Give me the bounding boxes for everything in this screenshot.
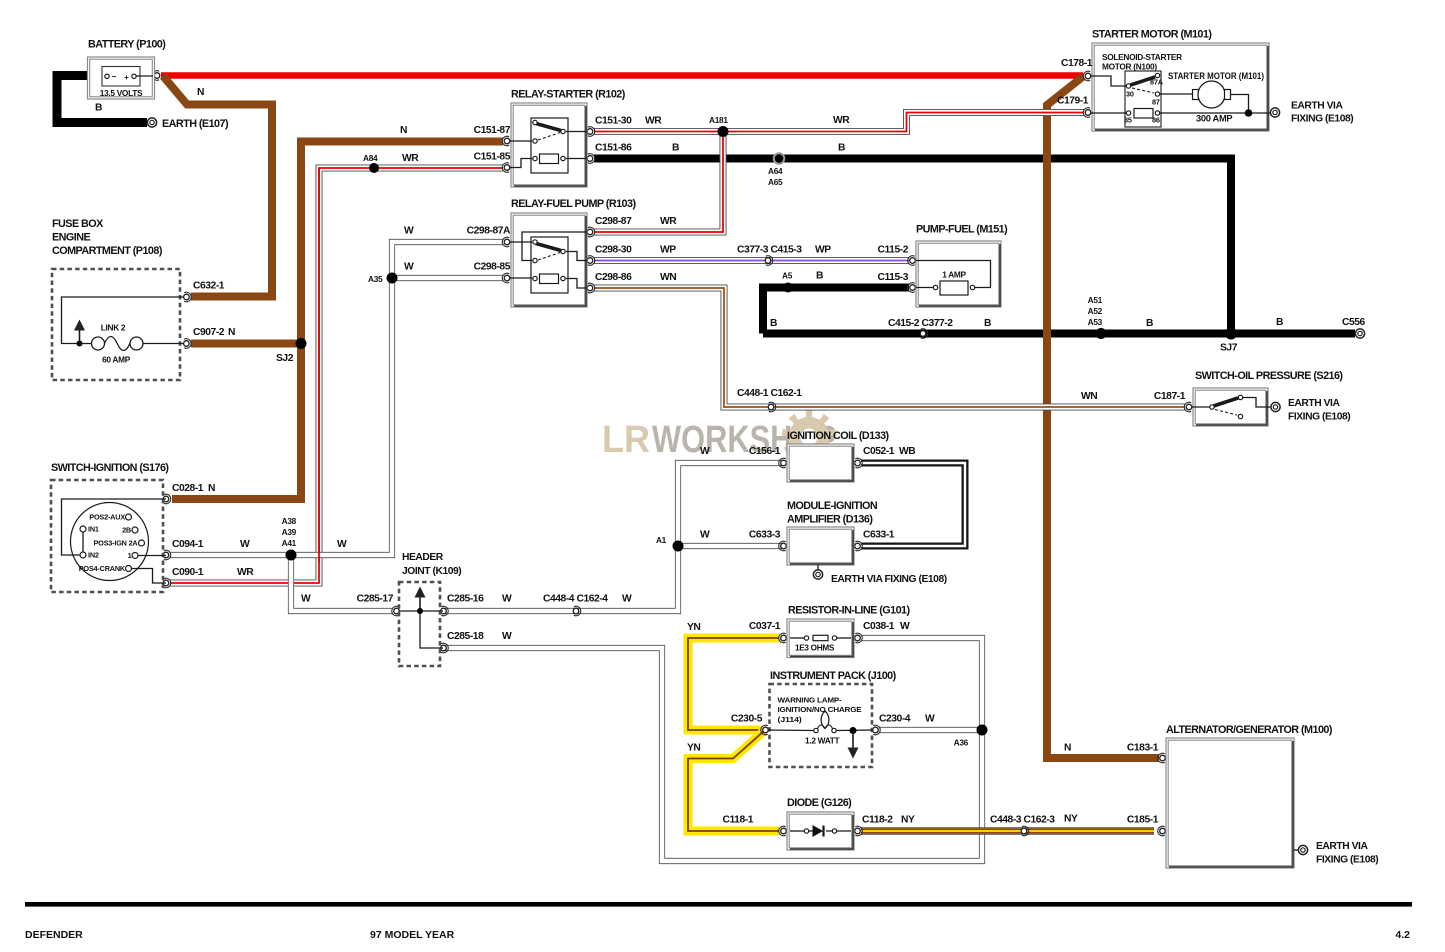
svg-text:WN: WN	[1081, 391, 1097, 402]
wire W header C285-18 via A36 to resistor C038-1 and instrument C230-4	[445, 638, 982, 861]
svg-text:C415-2 C377-2: C415-2 C377-2	[888, 318, 953, 329]
svg-text:JOINT (K109): JOINT (K109)	[402, 566, 461, 577]
svg-text:C298-30: C298-30	[595, 245, 632, 256]
svg-text:POS2-AUX: POS2-AUX	[89, 513, 125, 522]
node SJ7	[1225, 328, 1237, 340]
node A38 A39 A41	[286, 550, 297, 561]
battery P100	[88, 57, 155, 99]
svg-text:WR: WR	[660, 216, 677, 227]
svg-text:C285-17: C285-17	[357, 594, 394, 605]
connector C185-1	[1158, 826, 1166, 836]
connector C285-17	[392, 606, 400, 616]
svg-text:LR: LR	[602, 419, 650, 461]
node A35	[387, 273, 398, 284]
connector C230-5	[761, 725, 769, 735]
connector C118-2	[855, 826, 863, 836]
svg-text:2B: 2B	[122, 526, 131, 535]
wire W ignition C094-1 via A38/A39/A41 and A35 to relay R103 and header joint C285-17	[170, 242, 503, 611]
svg-text:C448-3 C162-3: C448-3 C162-3	[990, 815, 1055, 826]
svg-text:60 AMP: 60 AMP	[102, 355, 131, 365]
relay R103 relay-fuel pump	[510, 213, 587, 307]
svg-text:RELAY-STARTER (R102): RELAY-STARTER (R102)	[511, 89, 626, 101]
svg-text:DIODE (G126): DIODE (G126)	[787, 797, 852, 809]
svg-text:30: 30	[1126, 90, 1134, 99]
svg-text:LINK 2: LINK 2	[101, 323, 126, 333]
wire WR relay C151-30 via A181 to starter C179-1 and relay C298-87	[594, 113, 1084, 233]
svg-text:C179-1: C179-1	[1057, 96, 1089, 107]
connector C151-87	[502, 136, 510, 146]
svg-text:W: W	[900, 621, 910, 632]
svg-text:W: W	[700, 530, 710, 541]
svg-text:W: W	[404, 226, 414, 237]
svg-text:A41: A41	[282, 538, 297, 548]
svg-text:C052-1: C052-1	[863, 446, 895, 457]
svg-text:NY: NY	[1064, 814, 1078, 825]
svg-text:A65: A65	[768, 177, 783, 187]
wire WN relay C298-86 to oil pressure switch C187-1	[594, 288, 1185, 407]
wire B battery negative to earth E107	[57, 76, 147, 123]
svg-text:C448-1 C162-1: C448-1 C162-1	[737, 388, 802, 399]
svg-text:N: N	[400, 125, 407, 136]
svg-text:RELAY-FUEL PUMP (R103): RELAY-FUEL PUMP (R103)	[511, 198, 636, 210]
switch-ignition S176	[51, 480, 166, 592]
wire YN resistor C037-1 to instrument C230-5	[688, 638, 779, 730]
svg-text:WN: WN	[660, 272, 676, 283]
svg-text:B: B	[838, 143, 845, 154]
svg-text:C118-1: C118-1	[722, 815, 753, 826]
node A84	[369, 163, 379, 173]
node A5	[783, 283, 793, 293]
svg-text:BATTERY (P100): BATTERY (P100)	[88, 39, 166, 51]
svg-text:DEFENDER: DEFENDER	[25, 929, 83, 941]
node SJ2	[296, 338, 307, 349]
svg-text:HEADER: HEADER	[402, 552, 444, 563]
svg-text:COMPARTMENT (P108): COMPARTMENT (P108)	[52, 245, 163, 257]
svg-text:YN: YN	[687, 743, 700, 754]
connector C298-30	[587, 256, 595, 266]
wire N fusebox C907-2 via SJ2 to relay C151-87 and switch C028-1	[172, 142, 503, 500]
svg-text:N: N	[1064, 743, 1071, 754]
terminal alternator earth ring E108	[1298, 845, 1307, 854]
svg-text:97 MODEL YEAR: 97 MODEL YEAR	[370, 929, 455, 941]
alternator/generator M100	[1166, 738, 1298, 868]
svg-text:N: N	[208, 483, 215, 494]
svg-text:C230-4: C230-4	[879, 714, 911, 725]
connector C156-1	[779, 458, 787, 468]
svg-text:W: W	[502, 631, 512, 642]
svg-text:N: N	[197, 87, 204, 98]
connector C183-1	[1158, 753, 1166, 763]
svg-text:C183-1: C183-1	[1127, 743, 1159, 754]
connector C298-87	[587, 227, 595, 237]
terminal EARTH (E107) ring	[147, 118, 156, 127]
svg-text:STARTER MOTOR (M101): STARTER MOTOR (M101)	[1092, 29, 1212, 41]
svg-text:PUMP-FUEL (M151): PUMP-FUEL (M151)	[916, 224, 1008, 236]
terminal oil switch earth ring E108	[1271, 402, 1280, 411]
connector C907-2	[184, 339, 192, 349]
connector C298-87A	[502, 237, 510, 247]
svg-text:IGNITION COIL (D133): IGNITION COIL (D133)	[787, 430, 890, 442]
connector C052-1	[855, 458, 863, 468]
svg-text:C298-87A: C298-87A	[467, 226, 511, 237]
svg-text:C115-3: C115-3	[877, 272, 908, 283]
connector C298-86	[587, 283, 595, 293]
svg-text:B: B	[770, 318, 777, 329]
svg-text:SOLENOID-STARTER: SOLENOID-STARTER	[1102, 52, 1182, 62]
wire N battery to fusebox C632-1	[163, 76, 272, 297]
connector C038-1	[855, 633, 863, 643]
connector C178-1	[1083, 71, 1091, 81]
svg-text:−: −	[112, 72, 117, 82]
svg-text:W: W	[925, 714, 935, 725]
svg-text:FIXING (E108): FIXING (E108)	[1288, 412, 1350, 423]
wire YN instrument C230-5 to diode C118-1	[688, 731, 779, 831]
svg-text:EARTH VIA: EARTH VIA	[1291, 101, 1343, 112]
svg-text:C298-87: C298-87	[595, 216, 632, 227]
node A1	[673, 541, 684, 552]
wire WR ignition C090-1 via A84 to relay C151-85	[170, 168, 503, 583]
connector C298-85	[502, 273, 510, 283]
svg-text:IN2: IN2	[88, 551, 99, 560]
svg-text:+: +	[124, 72, 129, 82]
connector C179-1	[1083, 108, 1091, 118]
svg-text:EARTH VIA FIXING (E108): EARTH VIA FIXING (E108)	[831, 574, 947, 585]
svg-text:WR: WR	[402, 153, 419, 164]
connector C448-4 C162-4	[573, 606, 581, 616]
header joint K109	[399, 582, 443, 666]
svg-text:C185-1: C185-1	[1127, 815, 1159, 826]
svg-text:1 AMP: 1 AMP	[942, 270, 966, 280]
svg-text:W: W	[404, 262, 414, 273]
svg-text:WR: WR	[237, 567, 254, 578]
wire B relay C151-86 to SJ7	[594, 159, 1231, 334]
svg-text:C094-1: C094-1	[172, 539, 204, 550]
svg-text:ALTERNATOR/GENERATOR (M100): ALTERNATOR/GENERATOR (M100)	[1166, 724, 1333, 736]
instrument pack J100 with warning lamp J114	[768, 684, 873, 767]
svg-text:B: B	[816, 271, 823, 282]
svg-text:A5: A5	[782, 271, 793, 281]
svg-text:C118-2: C118-2	[862, 815, 893, 826]
ignition coil D133	[787, 444, 854, 482]
svg-text:C556: C556	[1342, 317, 1366, 328]
node A181	[718, 126, 729, 137]
svg-text:SJ7: SJ7	[1220, 343, 1238, 354]
svg-text:B: B	[984, 318, 991, 329]
wire R battery positive to starter C178-1	[161, 72, 1083, 79]
connector C115-3	[908, 283, 916, 293]
svg-text:A84: A84	[363, 153, 378, 163]
svg-text:ENGINE: ENGINE	[52, 232, 90, 244]
relay R102 relay-starter	[510, 103, 587, 187]
svg-text:W: W	[337, 539, 347, 550]
svg-text:POS3-IGN 2A: POS3-IGN 2A	[93, 539, 138, 548]
svg-text:C028-1: C028-1	[172, 483, 204, 494]
svg-text:W: W	[622, 594, 632, 605]
connector C415-2 C377-2	[920, 329, 928, 339]
wire W header C285-16 via A1 to coil C156-1 and module C633-3	[445, 463, 783, 611]
svg-text:A36: A36	[954, 738, 969, 748]
svg-text:87A: 87A	[1150, 78, 1164, 87]
svg-text:A51: A51	[1088, 295, 1103, 305]
svg-text:SWITCH-IGNITION (S176): SWITCH-IGNITION (S176)	[51, 462, 169, 474]
switch-oil pressure S216	[1192, 388, 1271, 426]
connector C448-3 C162-3	[1021, 826, 1029, 836]
svg-text:A52: A52	[1088, 306, 1103, 316]
svg-text:A53: A53	[1088, 317, 1103, 327]
svg-text:300 AMP: 300 AMP	[1196, 114, 1232, 124]
wire WB coil C052-1 to module C633-1	[861, 463, 965, 546]
svg-text:YN: YN	[687, 622, 700, 633]
connector C151-85	[502, 163, 510, 173]
wire B pump C115-3 loop to C556	[763, 288, 1355, 334]
pump-fuel M151 with 1 AMP fuse	[916, 241, 1001, 307]
module-ignition amplifier D136	[787, 527, 854, 570]
resistor-in-line G101 1E3 OHMS	[787, 619, 854, 658]
connector C037-1	[779, 633, 787, 643]
connector C090-1	[163, 578, 171, 588]
svg-text:(J114): (J114)	[778, 715, 803, 724]
svg-text:W: W	[502, 594, 512, 605]
node A36	[977, 725, 988, 736]
connector C632-1	[184, 292, 192, 302]
terminal module earth ring E108	[813, 570, 822, 579]
svg-text:A181: A181	[709, 115, 728, 125]
svg-text:C633-3: C633-3	[749, 530, 781, 541]
fuse box P108 with fusible link LINK 2	[52, 269, 183, 380]
svg-text:A1: A1	[656, 535, 667, 545]
svg-text:C187-1: C187-1	[1154, 391, 1186, 402]
svg-text:SWITCH-OIL PRESSURE (S216): SWITCH-OIL PRESSURE (S216)	[1195, 370, 1343, 382]
svg-text:C151-87: C151-87	[474, 125, 511, 136]
connector C230-4	[873, 725, 881, 735]
connector C187-1	[1184, 402, 1192, 412]
svg-text:87: 87	[1152, 98, 1160, 107]
svg-text:W: W	[700, 446, 710, 457]
svg-text:C632-1: C632-1	[193, 281, 225, 292]
wire NY diode C118-2 to alternator C185-1	[861, 827, 1154, 834]
connector C151-30	[587, 127, 595, 137]
connector C633-3	[779, 541, 787, 551]
svg-text:RESISTOR-IN-LINE (G101): RESISTOR-IN-LINE (G101)	[788, 605, 910, 617]
svg-text:13.5 VOLTS: 13.5 VOLTS	[100, 88, 143, 98]
svg-text:B: B	[1276, 317, 1283, 328]
svg-text:A64: A64	[768, 166, 783, 176]
svg-text:B: B	[672, 143, 679, 154]
connector C094-1	[163, 550, 171, 560]
svg-text:C633-1: C633-1	[863, 530, 895, 541]
connector C118-1	[779, 826, 787, 836]
wire WP relay C298-30 to pump C115-2	[594, 257, 909, 264]
svg-text:MOTOR (N100): MOTOR (N100)	[1102, 62, 1157, 72]
connector C285-18	[441, 643, 449, 653]
svg-text:C151-86: C151-86	[595, 143, 632, 154]
svg-text:C285-16: C285-16	[447, 594, 484, 605]
svg-text:WR: WR	[645, 116, 662, 127]
svg-text:W: W	[240, 539, 250, 550]
svg-text:B: B	[95, 103, 102, 114]
svg-text:FIXING (E108): FIXING (E108)	[1291, 114, 1353, 125]
svg-text:IN1: IN1	[88, 525, 99, 534]
svg-text:C115-2: C115-2	[877, 245, 908, 256]
svg-text:EARTH VIA: EARTH VIA	[1288, 398, 1340, 409]
connector C115-2	[908, 256, 916, 266]
svg-text:FUSE BOX: FUSE BOX	[52, 218, 104, 230]
svg-text:EARTH (E107): EARTH (E107)	[162, 118, 229, 130]
svg-text:MODULE-IGNITION: MODULE-IGNITION	[787, 500, 878, 512]
watermark logo LRWORKSHOP	[602, 410, 837, 464]
diode G126	[787, 812, 854, 850]
svg-text:4.2: 4.2	[1395, 929, 1410, 941]
svg-text:C151-85: C151-85	[474, 152, 511, 163]
connector C448-1 C162-1	[768, 402, 776, 412]
starter motor M101 with solenoid N100	[1091, 43, 1270, 131]
wire WR red stripe over crossing	[318, 168, 320, 562]
node A51 A52 A53	[1096, 328, 1107, 339]
svg-text:IGNITION/NO CHARGE: IGNITION/NO CHARGE	[778, 705, 862, 714]
svg-text:1E3 OHMS: 1E3 OHMS	[795, 643, 835, 653]
svg-text:C298-86: C298-86	[595, 272, 632, 283]
svg-text:C377-3 C415-3: C377-3 C415-3	[737, 245, 802, 256]
svg-text:FIXING (E108): FIXING (E108)	[1316, 855, 1378, 866]
svg-text:1.2 WATT: 1.2 WATT	[805, 736, 840, 746]
connector battery positive terminal	[152, 71, 160, 81]
connector C633-1	[855, 541, 863, 551]
svg-text:WR: WR	[833, 115, 850, 126]
svg-text:C156-1: C156-1	[749, 446, 781, 457]
svg-text:C448-4 C162-4: C448-4 C162-4	[543, 594, 608, 605]
svg-text:C298-85: C298-85	[474, 262, 511, 273]
svg-text:NY: NY	[901, 815, 915, 826]
terminal starter earth ring E108	[1270, 108, 1279, 117]
svg-text:N: N	[228, 327, 235, 338]
svg-text:A38: A38	[282, 516, 297, 526]
svg-text:POS4-CRANK: POS4-CRANK	[79, 564, 126, 573]
svg-text:C038-1: C038-1	[863, 621, 895, 632]
svg-text:EARTH VIA: EARTH VIA	[1316, 841, 1368, 852]
svg-text:85: 85	[1124, 116, 1132, 125]
footer rule	[25, 902, 1412, 907]
svg-text:WP: WP	[815, 245, 831, 256]
svg-text:B: B	[1146, 318, 1153, 329]
svg-text:C230-5: C230-5	[731, 714, 763, 725]
connector C151-86	[587, 154, 595, 164]
svg-text:C037-1: C037-1	[749, 621, 781, 632]
svg-text:A35: A35	[368, 274, 383, 284]
terminal C556 ring	[1355, 329, 1364, 338]
svg-text:STARTER MOTOR (M101): STARTER MOTOR (M101)	[1168, 71, 1264, 81]
svg-text:C178-1: C178-1	[1061, 58, 1093, 69]
svg-text:A39: A39	[282, 527, 297, 537]
svg-text:C151-30: C151-30	[595, 116, 632, 127]
connector C285-16	[441, 606, 449, 616]
connector C377-3 C415-3	[765, 256, 773, 266]
node A64 A65	[773, 152, 786, 165]
svg-text:WARNING LAMP-: WARNING LAMP-	[778, 696, 843, 705]
svg-text:INSTRUMENT PACK (J100): INSTRUMENT PACK (J100)	[770, 670, 897, 682]
svg-text:86: 86	[1152, 116, 1160, 125]
svg-text:W: W	[301, 594, 311, 605]
svg-text:C285-18: C285-18	[447, 631, 484, 642]
svg-text:SJ2: SJ2	[276, 353, 294, 364]
wire NY body	[861, 828, 1154, 833]
svg-text:WB: WB	[899, 446, 915, 457]
svg-text:1: 1	[128, 551, 132, 560]
svg-text:C090-1: C090-1	[172, 567, 204, 578]
svg-text:C907-2: C907-2	[193, 327, 225, 338]
svg-text:WP: WP	[660, 245, 676, 256]
connector C028-1	[163, 494, 171, 504]
wire N starter C178-1 to alternator C183-1	[1047, 77, 1159, 759]
svg-text:AMPLIFIER (D136): AMPLIFIER (D136)	[787, 514, 873, 526]
